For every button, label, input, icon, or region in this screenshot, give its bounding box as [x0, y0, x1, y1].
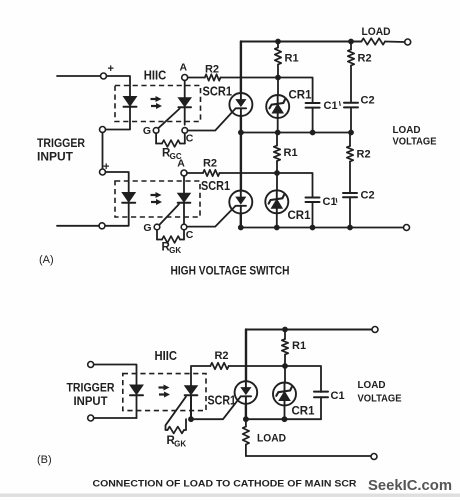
wire A to R2 stage 2	[187, 172, 203, 174]
svg-text:SCR1: SCR1	[208, 393, 237, 408]
resistor R1 stage 1	[275, 42, 281, 75]
junction mid C1	[310, 130, 316, 136]
resistor R2 snubber stage 2	[347, 133, 353, 194]
svg-text:CR1: CR1	[289, 90, 313, 102]
label CR1 B	[292, 406, 316, 418]
resistor R1 stage 2	[274, 133, 280, 174]
svg-text:C: C	[186, 132, 194, 144]
label R2 snubber stage 2	[357, 149, 371, 161]
svg-text:SCR1: SCR1	[201, 178, 230, 193]
label C2 stage 1	[361, 95, 375, 107]
wire SCR B cathode	[245, 404, 247, 419]
svg-text:GK: GK	[169, 246, 181, 255]
wire C2 bottom stage 2	[349, 197, 351, 227]
svg-text:CONNECTION OF LOAD TO CATHODE: CONNECTION OF LOAD TO CATHODE OF MAIN SC…	[93, 479, 357, 490]
svg-text:CR1: CR1	[292, 406, 316, 418]
svg-text:CR1: CR1	[288, 210, 312, 222]
capacitor C1 stage 1	[306, 103, 320, 108]
wire R2 to divider junction B	[229, 365, 285, 367]
top bus circuit B	[246, 329, 372, 331]
scan tick after C1 stage 1	[339, 102, 342, 106]
wire photo-SCR1 cathode	[184, 107, 186, 124]
junction bottom CR1 stage2	[274, 225, 280, 231]
label C1 stage 1	[324, 100, 338, 112]
label R2 stage 1 gate	[205, 64, 219, 76]
wire C1 B bottom	[320, 397, 322, 419]
junction divider B	[282, 363, 288, 369]
junction R1 top B	[282, 327, 288, 333]
terminal trigger input bottom B	[88, 415, 94, 421]
junction photo-SCR B cathode	[188, 416, 194, 422]
wire R2 to divider junction stage 1	[221, 77, 279, 79]
wire LED B cathode	[136, 396, 138, 418]
svg-text:C1: C1	[323, 196, 337, 208]
resistor RGK leads stage 2	[157, 230, 184, 240]
svg-text:R2: R2	[205, 64, 219, 76]
svg-text:G: G	[143, 222, 151, 234]
resistor RGC leads	[156, 133, 185, 143]
svg-text:C2: C2	[361, 190, 375, 202]
svg-text:HIIC: HIIC	[154, 348, 177, 363]
svg-text:C1: C1	[331, 390, 345, 402]
SCR B gate wire	[194, 396, 241, 419]
svg-text:LOAD: LOAD	[358, 379, 386, 391]
svg-text:INPUT: INPUT	[37, 152, 73, 164]
node G stage 1	[143, 125, 159, 137]
svg-text:VOLTAGE: VOLTAGE	[358, 393, 402, 405]
wire photo-SCR B cathode	[190, 395, 192, 419]
svg-text:G: G	[143, 125, 151, 137]
label LOAD VOLTAGE circuit B	[358, 379, 402, 405]
svg-text:A: A	[177, 158, 185, 170]
photo-SCR Q2 of HIIC2	[178, 193, 191, 203]
svg-text:TRIGGER: TRIGGER	[37, 138, 86, 150]
optocoupler HIIC B dashed box	[123, 374, 206, 411]
wire C2 bottom stage 1	[350, 107, 352, 132]
wire terminal to LED2 anode	[106, 172, 129, 193]
SCR1 main stage 2	[229, 191, 252, 214]
label R2 snubber stage 1	[358, 53, 372, 65]
label + stage 2	[103, 161, 109, 173]
resistor R2 stage 2 (gate)	[203, 170, 220, 176]
photo-SCR2 gate lead	[159, 204, 179, 225]
svg-text:SeekIC.com: SeekIC.com	[368, 478, 452, 494]
wire CR1 bottom stage 1	[277, 118, 279, 133]
watermark SeekIC.com	[368, 478, 452, 494]
terminal LED1 cathode	[100, 127, 106, 133]
SCR1 main stage 1	[229, 93, 252, 116]
resistor R2 B (gate)	[210, 363, 228, 369]
wire photo-SCR B anode	[191, 366, 210, 386]
label C1 stage 2	[323, 196, 337, 208]
junction mid C2	[348, 130, 354, 136]
wire CR1 bottom stage 2	[276, 213, 278, 227]
photo-SCR1 gate lead	[158, 109, 179, 129]
junction bottom C1 stage2	[310, 225, 316, 231]
terminal LED2 cathode	[99, 223, 105, 229]
label LOAD top	[362, 26, 391, 38]
junction node divider stage 1	[275, 75, 281, 81]
wire LOAD to terminal	[385, 41, 405, 44]
label CR1 stage 1	[289, 90, 313, 102]
label R1 stage 2	[284, 147, 298, 159]
junction bottom SCR2 cathode	[238, 225, 244, 231]
junction node divider stage 2	[274, 170, 280, 176]
zener CR1 stage 1	[266, 95, 289, 118]
svg-text:VOLTAGE: VOLTAGE	[393, 136, 437, 148]
SCR1 gate wire stage 1	[188, 108, 236, 130]
photo-SCR Q1 of HIIC B	[185, 386, 198, 396]
junction mid CR1	[275, 130, 281, 136]
zener CR1 B lead	[284, 366, 286, 383]
label R1 B	[292, 340, 306, 352]
svg-text:LOAD: LOAD	[393, 124, 421, 136]
label R2 stage 2 gate	[203, 158, 217, 170]
wire anode bus SCR1 stage 1	[240, 42, 242, 94]
resistor RGC	[162, 140, 180, 147]
wire photo-SCR1 anode	[184, 81, 186, 98]
node C stage 1	[182, 128, 194, 145]
svg-text:HIGH VOLTAGE SWITCH: HIGH VOLTAGE SWITCH	[171, 266, 290, 278]
SCR1 main circuit B	[235, 381, 258, 404]
top bus stage 1	[241, 41, 362, 43]
terminal load top right	[405, 39, 411, 45]
bottom cathode line circuit A	[241, 227, 404, 229]
terminal trigger input top B	[88, 362, 94, 368]
node G stage 2	[143, 222, 159, 234]
mid cathode line stage 1	[241, 132, 351, 134]
label RGK stage 2	[162, 242, 182, 255]
wire C1 bottom stage 2	[312, 202, 314, 228]
bottom wire circuit B	[246, 455, 371, 457]
node C stage 2	[181, 224, 194, 241]
svg-text:+: +	[108, 63, 114, 75]
scan tick after C1 stage 2	[335, 199, 338, 203]
photo-SCR B gate lead	[166, 397, 186, 430]
wire RGK to cathode junction B	[185, 419, 187, 430]
svg-text:INPUT: INPUT	[74, 396, 108, 408]
wire terminal to LED1 anode	[107, 76, 131, 97]
label CR1 stage 2	[288, 210, 312, 222]
optocoupler HIIC2 dashed box	[115, 181, 200, 217]
node A stage 1	[180, 62, 188, 81]
resistor R2 snubber stage 1	[348, 42, 354, 103]
label RGK B	[167, 435, 187, 448]
label INPUT	[37, 152, 73, 164]
label HIIC B	[154, 348, 177, 363]
caption HIGH VOLTAGE SWITCH	[171, 266, 290, 278]
label LOAD B	[257, 433, 286, 445]
coupling arrows HIIC1	[151, 96, 163, 109]
svg-text:A: A	[180, 62, 188, 74]
resistor R1 B	[282, 330, 288, 367]
SCR2 gate wire stage 2	[187, 206, 236, 227]
wire R2 to divider junction stage 2	[220, 172, 278, 174]
wire SCR2 cathode stage 2	[240, 214, 242, 228]
zener CR1 stage 2 lead	[276, 173, 278, 190]
wire CR1 B bottom	[284, 405, 286, 419]
svg-text:(B): (B)	[37, 454, 52, 466]
resistor RGK stage 2	[162, 236, 180, 243]
wire trigger input top (+) lead	[57, 75, 101, 77]
caption CONNECTION OF LOAD TO CATHODE OF MAIN SCR	[93, 479, 357, 490]
label C1 B	[331, 390, 345, 402]
wire LED2 cathode	[105, 203, 129, 226]
wire anode bus SCR B	[245, 330, 247, 382]
junction cathode CR1 B	[282, 416, 288, 422]
label SCR1 B	[208, 393, 237, 408]
wire SCR1 cathode stage 1	[240, 116, 242, 133]
label LOAD VOLTAGE circuit A	[393, 124, 437, 148]
resistor LOAD B	[243, 419, 249, 456]
coupling arrows HIIC2	[151, 192, 163, 205]
wire junction to C1 B	[285, 366, 321, 392]
label SCR1 stage 1	[203, 84, 233, 99]
junction bottom C2 stage2	[347, 225, 353, 231]
wire anode bus SCR stage 2	[240, 133, 242, 191]
resistor LOAD top	[361, 38, 385, 44]
zener CR1 B	[273, 383, 296, 406]
svg-text:(A): (A)	[39, 254, 54, 266]
coupling arrows HIIC B	[159, 385, 171, 398]
wire trigger bottom to LED B cathode	[94, 417, 137, 419]
label HIIC stage 1	[144, 68, 167, 83]
svg-text:R2: R2	[357, 149, 371, 161]
svg-text:R2: R2	[203, 158, 217, 170]
capacitor C1 stage 2	[306, 198, 320, 203]
LED D1 of HIIC B	[130, 385, 143, 395]
cathode line circuit B	[246, 418, 321, 420]
LED D1 of HIIC1	[124, 97, 137, 107]
label R2 B	[214, 350, 228, 362]
photo-SCR Q1 of HIIC1	[178, 98, 191, 108]
LED D2 of HIIC2	[122, 193, 135, 203]
label INPUT B	[74, 396, 108, 408]
svg-text:LOAD: LOAD	[362, 26, 391, 38]
svg-text:R1: R1	[292, 340, 306, 352]
wire trigger top to LED B	[94, 365, 137, 386]
svg-text:C2: C2	[361, 95, 375, 107]
label R1 stage 1	[285, 53, 299, 65]
resistor R2 stage 1 (gate)	[205, 74, 221, 80]
wire C1 bottom stage 1	[312, 108, 314, 133]
svg-text:HIIC: HIIC	[144, 68, 167, 83]
junction cathode SCR B	[243, 416, 249, 422]
wire photo-SCR2 anode	[183, 176, 185, 193]
terminal bottom right circuit B	[371, 454, 377, 460]
svg-text:LOAD: LOAD	[257, 433, 286, 445]
label + stage 1	[108, 63, 114, 75]
capacitor C2 stage 2	[343, 193, 357, 197]
zener CR1 stage 1 lead	[277, 78, 279, 96]
svg-text:R2: R2	[214, 350, 228, 362]
svg-text:TRIGGER: TRIGGER	[67, 383, 116, 395]
svg-text:R1: R1	[284, 147, 298, 159]
terminal + input stage 1	[101, 73, 107, 79]
label TRIGGER B	[67, 383, 116, 395]
wire junction to C1 stage 1	[278, 78, 313, 104]
svg-text:GK: GK	[174, 439, 186, 448]
zener CR1 stage 2	[265, 190, 288, 213]
optocoupler HIIC1 dashed box	[115, 86, 201, 122]
terminal + input stage 2	[100, 169, 106, 175]
wire photo-SCR2 cathode	[183, 203, 185, 224]
capacitor C1 B	[314, 392, 328, 398]
resistor RGK B	[166, 427, 187, 434]
terminal bottom right circuit A	[404, 225, 410, 231]
svg-text:R1: R1	[285, 53, 299, 65]
svg-text:SCR1: SCR1	[203, 84, 233, 99]
label C2 stage 2	[361, 190, 375, 202]
junction R1 top stage 1	[275, 39, 281, 45]
wire junction to C1 stage 2	[277, 173, 313, 198]
terminal top right circuit B	[372, 327, 378, 333]
scan artifact gray band bottom	[0, 494, 460, 497]
node A stage 2	[177, 158, 187, 177]
label (A)	[39, 254, 54, 266]
wire trigger input bottom lead	[57, 225, 99, 227]
wire A to R2 stage 1	[188, 77, 205, 79]
svg-text:C1: C1	[324, 100, 338, 112]
label RGC	[162, 148, 182, 161]
svg-text:R2: R2	[358, 53, 372, 65]
wire LED1 cathode	[106, 107, 131, 129]
label (B)	[37, 454, 52, 466]
wire link stage1 cathode to stage2 anode	[102, 133, 104, 170]
label SCR1 stage 2	[201, 178, 230, 193]
capacitor C2 stage 1	[344, 103, 358, 108]
label TRIGGER	[37, 138, 86, 150]
svg-text:C: C	[186, 229, 194, 241]
junction mid SCR cathode	[238, 130, 244, 136]
junction top bus right stage 1	[348, 39, 354, 45]
